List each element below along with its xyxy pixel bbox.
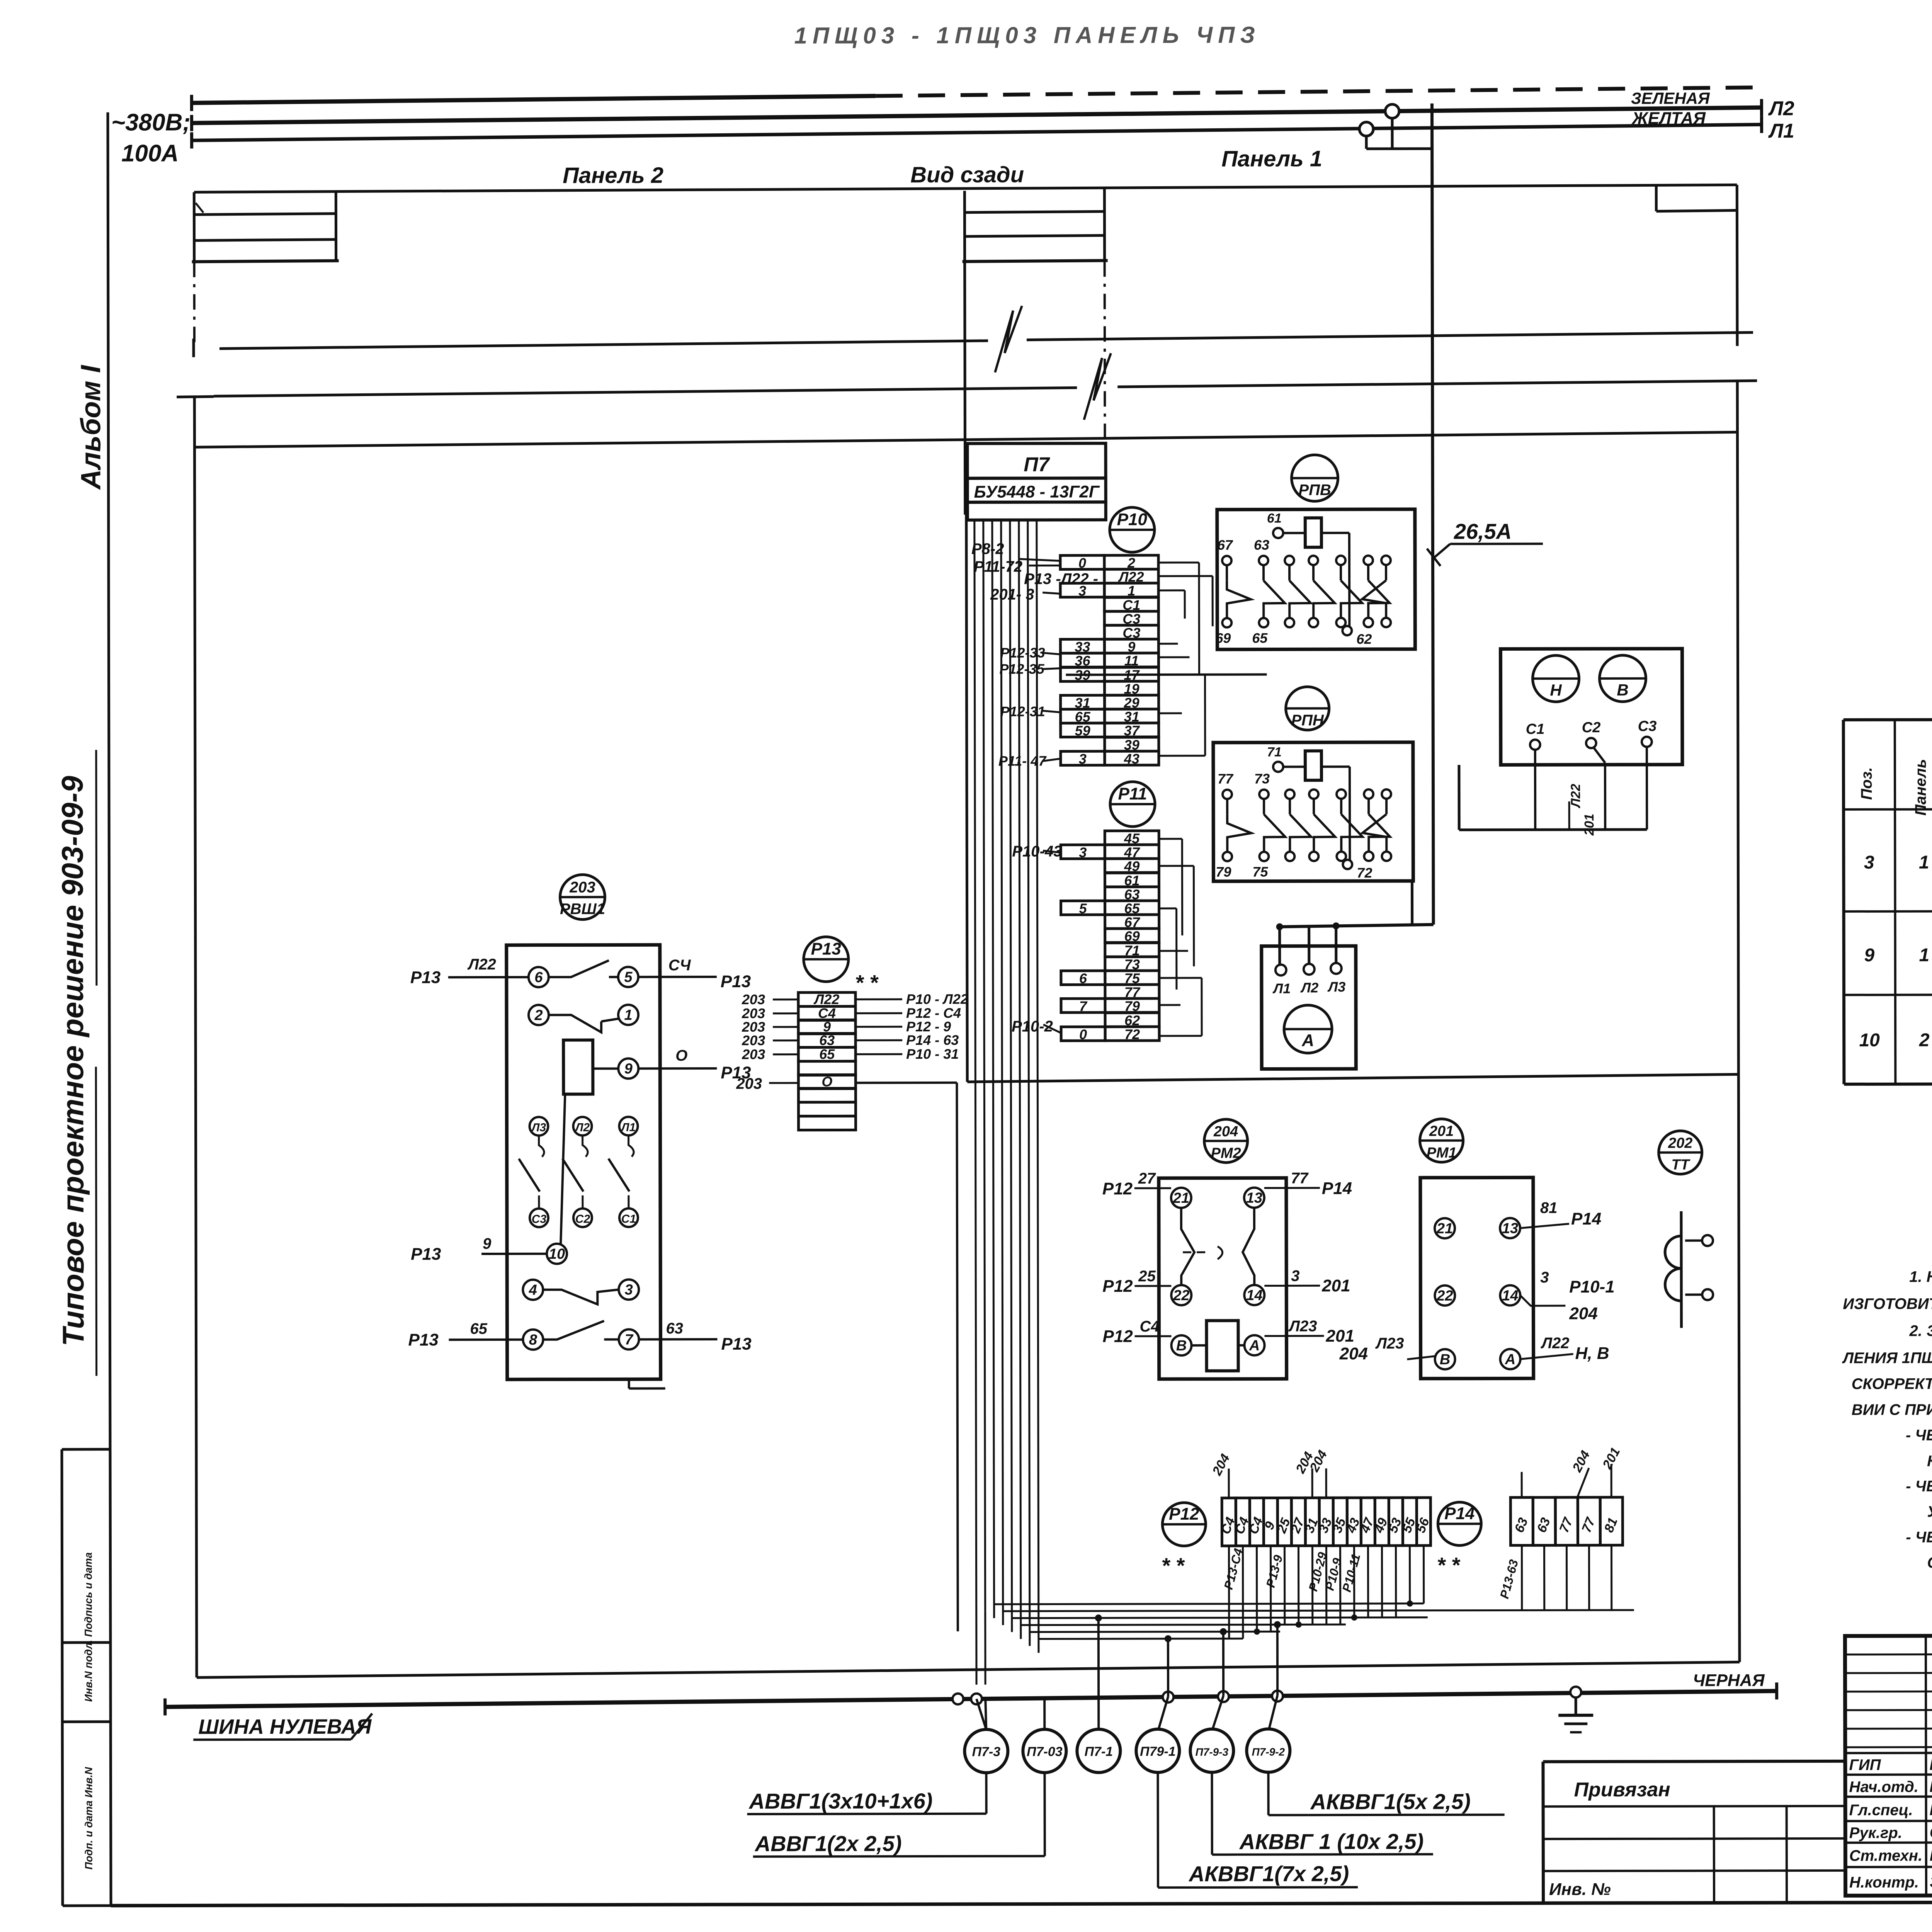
horizontal у2395 to A box [1280, 925, 1434, 927]
node on bus L2 [1385, 104, 1399, 118]
svg-text:Л3: Л3 [531, 1121, 546, 1134]
svg-text:9: 9 [483, 1235, 492, 1252]
svg-text:ГИП: ГИП [1849, 1757, 1881, 1774]
РВШ1 terminal 10 [547, 1244, 567, 1264]
svg-text:79: 79 [1216, 864, 1231, 880]
circle 203 РВШ1 [560, 875, 605, 920]
svg-text:21: 21 [1436, 1221, 1453, 1237]
circle P10 [1110, 507, 1155, 552]
РМ2 contacts [1181, 1208, 1194, 1285]
svg-text:26,5А: 26,5А [1454, 519, 1512, 543]
svg-text:В: В [1440, 1352, 1451, 1368]
svg-text:Р14: Р14 [1322, 1179, 1352, 1198]
ammeter box [1262, 946, 1356, 1069]
privyazan box [1543, 1761, 1845, 1762]
svg-text:63: 63 [1254, 537, 1269, 553]
svg-text:С1: С1 [621, 1213, 636, 1225]
РПН relay box [1213, 742, 1413, 881]
P10 right step wires [1158, 561, 1199, 563]
terminal С3 [1642, 737, 1652, 747]
Р13 terminal strip [798, 992, 855, 1006]
svg-text:204: 204 [1213, 1124, 1238, 1140]
РПВ contacts [1222, 556, 1231, 565]
wire from P10 to РПВ/РПН [1066, 673, 1267, 676]
svg-text:1: 1 [1919, 852, 1929, 873]
terminal strip P10 [1104, 555, 1158, 569]
РМ2 relay box [1159, 1178, 1287, 1379]
svg-text:ЖЕЛТАЯ: ЖЕЛТАЯ [1631, 109, 1706, 128]
svg-text:3: 3 [625, 1282, 633, 1298]
circle P12 [1162, 1503, 1206, 1546]
circle РМ1 [1420, 1119, 1463, 1162]
svg-text:203: 203 [736, 1075, 762, 1092]
svg-text:Л2: Л2 [575, 1121, 590, 1134]
svg-text:П7-9-3: П7-9-3 [1196, 1746, 1229, 1758]
Р12 slat strip [1222, 1498, 1236, 1546]
svg-text:СКОРРЕКТИРОВАТЬ В ЧАСТИ: СКОРРЕКТИРОВАТЬ В ЧАСТИ СКРЕПЕРНЫХ ПОДЪЕ… [1852, 1374, 1932, 1393]
svg-text:- ЧЕРТ Э2-4 .- СХЕМУ СОЕ: - ЧЕРТ Э2-4 .- СХЕМУ СОЕДИНЕНИЙ В ЧАСТИ … [1906, 1527, 1932, 1546]
main vertical feeder x3710 [1432, 104, 1434, 925]
Р13 О wire [855, 1082, 957, 1084]
svg-text:Гохбойм: Гохбойм [1929, 1777, 1932, 1795]
РВШ1 terminals row 8 7 [523, 1330, 543, 1350]
svg-text:62: 62 [1356, 631, 1372, 647]
schematic bottom border [197, 1662, 1740, 1677]
circle РПН [1286, 687, 1329, 730]
svg-text:1: 1 [624, 1007, 632, 1023]
svg-text:Р13: Р13 [811, 939, 841, 958]
РВШ1 terminals row 6 5 [529, 967, 549, 987]
node on bus L1 [1359, 122, 1373, 136]
svg-text:Р12-33: Р12-33 [1000, 645, 1045, 661]
cable circle П7-9-3 [1190, 1729, 1233, 1772]
РВШ1 terminals row С3 С2 С1 [530, 1209, 548, 1227]
ground symbol [1575, 1693, 1577, 1715]
svg-text:Ст.техн.: Ст.техн. [1849, 1847, 1922, 1864]
panel1 mount box [1655, 186, 1658, 211]
svg-text:Л23: Л23 [1375, 1335, 1404, 1352]
circle P13 [804, 937, 849, 981]
svg-text:204: 204 [1339, 1344, 1368, 1363]
svg-text:Л3: Л3 [1327, 979, 1346, 995]
svg-text:Р13: Р13 [408, 1330, 438, 1349]
svg-text:Типовое проектное решение: Типовое проектное решение 903-09-9 [55, 776, 90, 1346]
svg-text:ЗЕЛЕНАЯ: ЗЕЛЕНАЯ [1631, 89, 1710, 107]
line L1 y889 [192, 338, 195, 357]
svg-text:В: В [1617, 681, 1628, 699]
svg-text:27: 27 [1138, 1170, 1156, 1187]
ammeter [1284, 1005, 1332, 1053]
cable circle П7-9-2 [1247, 1729, 1290, 1772]
title block signature grid [1926, 1636, 1926, 1896]
rear-view center box [964, 191, 965, 515]
left margin stamp column [62, 1449, 63, 1906]
РВШ1 terminals row Л3 Л2 Л1 [530, 1117, 548, 1136]
РВШ1 coil [563, 1040, 593, 1094]
svg-text:1. НА ДАННОМ ЧЕРТЕЖЕ ПРИВ: 1. НА ДАННОМ ЧЕРТЕЖЕ ПРИВЕДЕН ПРИМЕР ЗАД… [1909, 1267, 1932, 1285]
circle ТТ [1659, 1131, 1702, 1174]
ТТ symbol [1680, 1211, 1683, 1328]
lamp Н [1532, 655, 1579, 702]
svg-text:Р10: Р10 [1117, 510, 1148, 529]
svg-text:О: О [675, 1047, 687, 1064]
svg-text:Р13: Р13 [411, 1245, 441, 1264]
svg-text:П79-1: П79-1 [1140, 1744, 1176, 1759]
corner L2 right down [1737, 381, 1740, 1662]
svg-text:201: 201 [1429, 1123, 1454, 1139]
svg-text:Р14: Р14 [1444, 1504, 1475, 1523]
svg-text:2: 2 [534, 1007, 543, 1024]
svg-text:Л23: Л23 [1288, 1318, 1317, 1335]
svg-text:С2: С2 [1582, 719, 1601, 736]
wires bus to cable circles [976, 1699, 986, 1730]
svg-text:Л22: Л22 [1568, 784, 1583, 808]
bus drop wires [1391, 118, 1393, 149]
svg-text:АКВВГ1(5х 2,5): АКВВГ1(5х 2,5) [1310, 1789, 1471, 1814]
svg-text:С3: С3 [532, 1213, 547, 1226]
svg-text:АКВВГ 1 (10х 2,5): АКВВГ 1 (10х 2,5) [1239, 1829, 1424, 1854]
svg-text:3: 3 [1079, 751, 1087, 767]
break symbol on L2 [1084, 353, 1111, 420]
svg-text:Панель 1: Панель 1 [1221, 146, 1322, 171]
svg-text:Р12-31: Р12-31 [1000, 704, 1045, 719]
svg-text:69: 69 [1215, 630, 1231, 646]
svg-text:Привязан: Привязан [1574, 1779, 1670, 1801]
svg-text:10: 10 [549, 1246, 565, 1262]
ШИНА НУЛЕВАЯ bus [163, 1698, 167, 1715]
svg-text:Л1: Л1 [621, 1121, 636, 1134]
title block outer [1845, 1634, 1932, 1896]
РПВ coil [1305, 518, 1321, 547]
РПН coil [1305, 751, 1321, 780]
svg-text:65: 65 [1252, 630, 1268, 646]
svg-text:Синис: Синис [1930, 1823, 1932, 1841]
svg-text:Л22: Л22 [1540, 1335, 1569, 1352]
svg-text:201: 201 [1321, 1276, 1350, 1295]
svg-text:10: 10 [1859, 1030, 1880, 1051]
bundle horizontal connectors [994, 1604, 1424, 1604]
svg-text:Инв. №: Инв. № [1549, 1880, 1611, 1899]
bus node circles [952, 1694, 963, 1704]
svg-text:РМ2: РМ2 [1211, 1145, 1241, 1162]
svg-text:201: 201 [1325, 1327, 1354, 1345]
svg-text:РПВ: РПВ [1298, 481, 1331, 498]
svg-text:65: 65 [470, 1320, 487, 1337]
bottom frame border [111, 1901, 1932, 1906]
svg-text:2. ЗАДАНИЕ ЗАВОДУ- ИЗГОТОВИТЕ: 2. ЗАДАНИЕ ЗАВОДУ- ИЗГОТОВИТЕЛЮ НА ЩИТЫ … [1909, 1320, 1932, 1339]
svg-text:21: 21 [1173, 1190, 1189, 1206]
panels top edge [194, 185, 1737, 192]
svg-text:С4: С4 [1139, 1318, 1159, 1335]
svg-text:РВШ1: РВШ1 [560, 901, 605, 918]
РВШ1 box [507, 945, 661, 1379]
terminal С2 [1586, 738, 1596, 748]
svg-text:6: 6 [1079, 970, 1087, 986]
svg-text:73: 73 [1254, 771, 1270, 787]
svg-text:С1: С1 [1526, 721, 1545, 737]
svg-text:Н: Н [1550, 681, 1562, 699]
panel2 left edge dashdot [193, 262, 196, 347]
П7 conductor bundle [975, 520, 976, 1604]
wires from С1 С2 С3 down [1534, 750, 1536, 830]
line L2 y1010 [177, 396, 214, 397]
svg-text:Л1: Л1 [1272, 980, 1291, 996]
svg-text:22: 22 [1436, 1288, 1453, 1304]
svg-text:7: 7 [625, 1332, 634, 1348]
svg-text:25: 25 [1138, 1268, 1156, 1285]
break symbol on L1 [995, 306, 1022, 372]
svg-text:201: 201 [1582, 814, 1597, 836]
БУ5448 block left edge [966, 515, 968, 1082]
svg-text:7: 7 [1079, 998, 1088, 1014]
svg-text:Р13: Р13 [410, 968, 440, 987]
svg-text:Р12: Р12 [1169, 1505, 1199, 1524]
svg-text:203: 203 [569, 879, 595, 896]
Р12 strip bottom wires [1228, 1546, 1230, 1639]
cable circle П7-03 [1023, 1729, 1066, 1772]
svg-text:59: 59 [1075, 723, 1090, 738]
svg-text:УПРАВЛЕНИЯ , ПОЗ. 9 И 10: УПРАВЛЕНИЯ , ПОЗ. 9 И 10 ВКЛЮЧИТЬ ДОПОЛН… [1927, 1502, 1932, 1520]
svg-text:Р8-2: Р8-2 [971, 541, 1004, 558]
svg-text:0: 0 [1078, 555, 1086, 571]
svg-text:22: 22 [1173, 1287, 1189, 1304]
РМ1 relay box [1420, 1177, 1534, 1379]
svg-text:- ЧЕРТ Э2-3 - ПОЗ. 6 - В: - ЧЕРТ Э2-3 - ПОЗ. 6 - ВЫЧЕРКНУТЬ , ПОЗ.… [1906, 1477, 1932, 1495]
svg-text:ИЗГОТОВИТЕЛЮ ДЛЯ ОДНОГО С: ИЗГОТОВИТЕЛЮ ДЛЯ ОДНОГО СКРЕПЕРНОГО ПОДЪ… [1843, 1295, 1932, 1313]
svg-text:Р12-35: Р12-35 [999, 661, 1044, 677]
svg-text:П7: П7 [1024, 453, 1050, 476]
component table [1844, 718, 1932, 720]
center divider dashdot [1104, 261, 1106, 443]
svg-text:63: 63 [819, 1032, 835, 1048]
wires down to zero bus [975, 1604, 977, 1685]
svg-text:ВИИ С ПРИМЕРОМ , ПРИВЕДЕННЫМ: ВИИ С ПРИМЕРОМ , ПРИВЕДЕННЫМ НА ДАННОМ Л… [1852, 1401, 1932, 1418]
svg-text:2: 2 [1919, 1030, 1930, 1051]
svg-text:Р10 - 31: Р10 - 31 [906, 1046, 959, 1062]
bus L3 green (top) [190, 95, 193, 111]
svg-text:* *: * * [856, 970, 879, 995]
svg-text:А: А [1301, 1031, 1314, 1050]
svg-text:Панель: Панель [1912, 759, 1929, 816]
svg-text:65: 65 [819, 1046, 835, 1062]
svg-text:203: 203 [742, 992, 765, 1007]
circle РМ2 [1204, 1119, 1248, 1163]
Р13 right labels [855, 998, 902, 1000]
svg-text:14: 14 [1246, 1287, 1262, 1304]
svg-text:Райзман: Райзман [1929, 1755, 1932, 1773]
svg-text:Рук.гр.: Рук.гр. [1849, 1825, 1902, 1842]
svg-text:72: 72 [1357, 865, 1372, 881]
svg-text:100А: 100А [121, 140, 179, 167]
svg-text:А: А [1505, 1351, 1516, 1367]
svg-text:3: 3 [1540, 1269, 1549, 1286]
lamp В [1599, 655, 1646, 702]
svg-text:Вид сзади: Вид сзади [910, 162, 1024, 188]
svg-text:77: 77 [1291, 1170, 1309, 1187]
svg-text:1ПЩ03 - 1ПЩ03 ПАНЕЛЬ ЧПЗ: 1ПЩ03 - 1ПЩ03 ПАНЕЛЬ ЧПЗ [794, 22, 1260, 49]
svg-text:Р11-72: Р11-72 [974, 558, 1022, 575]
svg-text:Инв.N подл. Подпись и дата: Инв.N подл. Подпись и дата [82, 1552, 94, 1702]
svg-text:9: 9 [1864, 945, 1874, 966]
svg-text:П7-1: П7-1 [1085, 1744, 1113, 1759]
РПВ relay box [1217, 509, 1415, 650]
svg-text:202: 202 [1668, 1135, 1692, 1151]
svg-text:204: 204 [1569, 1304, 1598, 1323]
svg-text:Панель 2: Панель 2 [563, 163, 663, 188]
РВШ1 terminals row 2 1 [529, 1005, 549, 1025]
svg-text:72: 72 [1124, 1026, 1140, 1042]
svg-text:6: 6 [534, 969, 543, 986]
line L3 y1140 [194, 432, 1737, 447]
P11 right step wires [1159, 838, 1182, 840]
line L4 bottom of block y2800 [967, 1074, 1738, 1082]
svg-text:АКВВГ1(7х 2,5): АКВВГ1(7х 2,5) [1188, 1861, 1349, 1886]
bus L1 [190, 132, 193, 148]
svg-text:Р10-1: Р10-1 [1569, 1277, 1615, 1296]
circle P11 [1110, 782, 1155, 827]
svg-text:~380В;: ~380В; [111, 109, 190, 136]
left frame border [108, 112, 111, 1906]
svg-text:Поз.: Поз. [1858, 767, 1875, 800]
svg-text:Л1: Л1 [1768, 120, 1794, 142]
svg-text:СЧ: СЧ [668, 957, 691, 974]
svg-text:Р14: Р14 [1571, 1209, 1601, 1228]
svg-text:71: 71 [1267, 745, 1282, 759]
svg-text:РПН: РПН [1291, 712, 1325, 729]
svg-text:А: А [1249, 1338, 1260, 1354]
svg-text:Нач.отд.: Нач.отд. [1849, 1779, 1918, 1796]
svg-text:203: 203 [742, 1032, 765, 1048]
svg-text:4: 4 [529, 1282, 537, 1298]
svg-text:Л22: Л22 [813, 991, 840, 1007]
Р14 bottom wires [1521, 1545, 1523, 1610]
РПН contacts [1223, 790, 1232, 799]
РВШ1 terminals row 4 3 [523, 1280, 543, 1300]
svg-text:С3: С3 [1638, 718, 1657, 735]
svg-text:П7-03: П7-03 [1027, 1744, 1063, 1759]
svg-text:5: 5 [624, 969, 633, 985]
svg-text:С2: С2 [575, 1213, 590, 1226]
svg-text:75: 75 [1252, 864, 1268, 880]
svg-text:67: 67 [1217, 537, 1233, 553]
svg-text:3: 3 [1079, 844, 1087, 860]
svg-text:13: 13 [1502, 1220, 1518, 1236]
svg-text:0: 0 [1079, 1026, 1087, 1042]
svg-text:ЧЕРНАЯ: ЧЕРНАЯ [1693, 1671, 1765, 1690]
svg-text:Л2: Л2 [1300, 980, 1319, 995]
svg-text:Немец: Немец [1930, 1800, 1932, 1818]
svg-text:В: В [1176, 1338, 1187, 1354]
svg-text:63: 63 [666, 1320, 683, 1337]
svg-text:Зарецкий: Зарецкий [1930, 1872, 1932, 1891]
svg-text:П7-3: П7-3 [972, 1745, 1001, 1759]
Р12 strip top leaders [1228, 1469, 1230, 1498]
svg-text:АВВГ1(2х 2,5): АВВГ1(2х 2,5) [754, 1831, 902, 1856]
П7 box [967, 443, 1105, 478]
svg-text:ШИНА НУЛЕВАЯ: ШИНА НУЛЕВАЯ [198, 1715, 372, 1739]
Р14 slat strip [1510, 1497, 1533, 1545]
svg-text:Л22: Л22 [467, 956, 496, 973]
svg-text:77: 77 [1218, 771, 1234, 787]
svg-text:Гл.спец.: Гл.спец. [1849, 1802, 1913, 1819]
cable circle П79-1 [1136, 1729, 1179, 1772]
svg-text:РМ1: РМ1 [1427, 1145, 1457, 1161]
svg-text:Н.контр.: Н.контр. [1849, 1874, 1919, 1891]
circle P14 [1438, 1502, 1481, 1546]
svg-text:- ЧЕРТ. Э2-2 , - ОБЩИЙ ВИ: - ЧЕРТ. Э2-2 , - ОБЩИЙ ВИД ЩИТА В ЧАСТИ … [1906, 1425, 1932, 1444]
svg-text:61: 61 [1267, 511, 1282, 526]
svg-text:П7-9-2: П7-9-2 [1252, 1746, 1285, 1758]
svg-text:Кукушкина: Кукушкина [1930, 1846, 1932, 1864]
svg-text:Р12: Р12 [1102, 1179, 1133, 1198]
svg-text:ТТ: ТТ [1671, 1157, 1690, 1173]
svg-text:3: 3 [1291, 1267, 1299, 1284]
svg-text:Р13 -Л22 -: Р13 -Л22 - [1024, 570, 1098, 587]
svg-text:Р12: Р12 [1102, 1327, 1133, 1346]
terminal strip P11 [1105, 831, 1159, 845]
РВШ1 external wires and labels [448, 976, 529, 978]
cable circle П7-3 [964, 1730, 1008, 1773]
НВ lamp box [1500, 649, 1682, 765]
svg-text:Р11: Р11 [1118, 784, 1147, 803]
svg-text:Н, В: Н, В [1575, 1344, 1609, 1363]
svg-text:1: 1 [1919, 945, 1929, 966]
svg-text:9: 9 [624, 1061, 633, 1077]
svg-text:СКОРРЕКТИРОВАТЬ В СООТВЕТСТ: СКОРРЕКТИРОВАТЬ В СООТВЕТСТВИИ С ДАННЫМ … [1927, 1553, 1932, 1571]
svg-text:Р12: Р12 [1102, 1277, 1133, 1296]
svg-text:Альбом I: Альбом I [75, 364, 107, 490]
svg-text:КА ИСПРАВИТЬ В СООТВЕТСТВИИ: КА ИСПРАВИТЬ В СООТВЕТСТВИИ С ДАННЫМ ПРИ… [1927, 1452, 1932, 1469]
svg-text:8: 8 [529, 1332, 537, 1348]
svg-text:Р13: Р13 [721, 972, 751, 991]
svg-text:43: 43 [1124, 751, 1139, 767]
svg-text:203: 203 [742, 1046, 765, 1062]
svg-text:ЛЕНИЯ 1ПЩСУ÷ 4 ПЩСУ ( ЧЕРТ: ЛЕНИЯ 1ПЩСУ÷ 4 ПЩСУ ( ЧЕРТ. Э2-2 , Э2-3 … [1842, 1349, 1932, 1367]
svg-text:БУ5448 - 13Г2Г: БУ5448 - 13Г2Г [974, 482, 1100, 502]
terminal С1 [1530, 740, 1540, 750]
cable circle П7-1 [1077, 1729, 1120, 1772]
bus L2 [190, 115, 193, 131]
svg-text:* *: * * [1162, 1553, 1185, 1578]
panel2 mount box [193, 192, 196, 262]
svg-text:14: 14 [1502, 1287, 1518, 1304]
circle РПВ [1292, 455, 1338, 501]
РМ2 coil [1206, 1321, 1238, 1371]
svg-text:Р11- 47: Р11- 47 [998, 753, 1047, 769]
svg-text:АВВГ1(3х10+1х6): АВВГ1(3х10+1х6) [748, 1789, 933, 1813]
svg-text:Подп. и дата Инв.N: Подп. и дата Инв.N [83, 1767, 94, 1870]
svg-text:3: 3 [1864, 852, 1874, 873]
svg-text:81: 81 [1540, 1199, 1558, 1216]
svg-text:Л2: Л2 [1768, 97, 1794, 120]
svg-text:5: 5 [1079, 900, 1087, 916]
svg-text:13: 13 [1246, 1190, 1262, 1206]
svg-text:* *: * * [1437, 1553, 1460, 1577]
svg-text:Р13: Р13 [721, 1335, 751, 1354]
